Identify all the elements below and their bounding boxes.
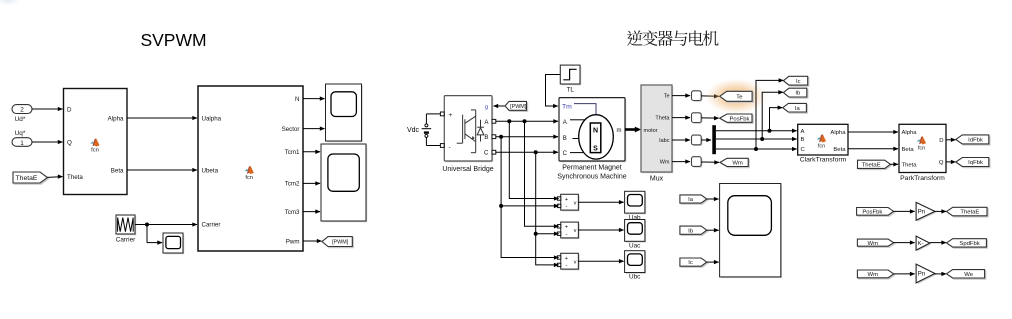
from tag Ib: [681, 227, 708, 235]
wire Wm row: [672, 161, 690, 163]
universal bridge block: [446, 97, 494, 162]
svg-text:C: C: [801, 147, 806, 153]
demux out b to Clark B: [716, 138, 797, 140]
svg-text:g: g: [485, 104, 488, 110]
svg-text:Ubeta: Ubeta: [202, 168, 219, 175]
converter square Te: [693, 92, 703, 102]
svg-text:Wm: Wm: [660, 160, 670, 166]
svg-text:Uac: Uac: [629, 243, 641, 250]
wire Iabc row: [672, 139, 690, 141]
svg-text:+: +: [449, 112, 453, 119]
svg-text:ClarkTransform: ClarkTransform: [800, 156, 847, 163]
svg-text:[PWM]: [PWM]: [510, 104, 527, 110]
svg-text:Beta: Beta: [833, 147, 846, 153]
svg-text:Ib: Ib: [795, 91, 801, 97]
svg-text:B: B: [563, 136, 567, 142]
goto tag Ib: [785, 89, 808, 98]
svg-text:fcn: fcn: [918, 146, 925, 152]
small scope: [164, 234, 184, 254]
branch to goto Ia: [768, 129, 772, 133]
wire bridge A to PMSM A: [496, 120, 558, 122]
svg-text:m: m: [617, 128, 622, 134]
svg-text:ParkTransform: ParkTransform: [900, 175, 945, 182]
svg-text:Te: Te: [664, 94, 670, 100]
converter square Iabc: [693, 136, 703, 146]
svg-text:B: B: [801, 137, 805, 143]
svg-text:fcn: fcn: [818, 144, 825, 150]
svg-text:Wm: Wm: [868, 241, 879, 247]
wire Ud* to D: [32, 108, 63, 110]
svg-text:D: D: [939, 138, 943, 144]
wire B phase to Uab- and Ubc+: [501, 137, 558, 206]
demux out c to Clark C: [716, 148, 797, 150]
gain K row2: [917, 237, 931, 251]
wire TL to Tm: [546, 75, 561, 107]
big scope Iabc: [721, 185, 782, 278]
svg-text:Te: Te: [736, 94, 743, 100]
voltage measurement Ubc: [562, 255, 580, 271]
wire N to scope1: [303, 98, 325, 100]
svg-text:Theta: Theta: [902, 163, 918, 169]
wire C phase to Uac- and Ubc-: [536, 152, 559, 234]
svg-text:Pn: Pn: [918, 209, 926, 216]
from tag Ia: [681, 196, 708, 204]
svg-text:Ubc: Ubc: [629, 274, 641, 281]
goto tag SpdFbk row2: [948, 240, 988, 248]
svg-text:ThetaE: ThetaE: [862, 162, 881, 168]
goto tag IdFbk: [957, 136, 990, 145]
MATLAB function block SVPWM U2: [198, 86, 303, 251]
goto tag PWM: [323, 238, 353, 248]
converter square Wm: [693, 158, 703, 168]
svg-text:Alpha: Alpha: [830, 130, 846, 136]
svg-text:A: A: [801, 129, 805, 135]
svg-text:S: S: [593, 146, 598, 153]
wire bridge C to PMSM C: [496, 151, 558, 153]
wire Vdc to bridge +: [426, 113, 440, 115]
svg-text:D: D: [67, 106, 72, 113]
svg-text:SVPWM: SVPWM: [140, 30, 206, 50]
svg-text:v: v: [574, 228, 577, 234]
svg-text:SpdFbk: SpdFbk: [959, 241, 979, 247]
gain Pn row3: [917, 265, 936, 284]
from tag Wm row3: [859, 271, 895, 279]
demux: [712, 125, 716, 154]
goto tag Wm: [721, 160, 749, 168]
goto tag IqFbk: [957, 159, 990, 168]
svg-text:-: -: [566, 232, 568, 238]
svg-text:Pwm: Pwm: [286, 238, 300, 245]
from tag Ic: [681, 259, 708, 267]
svg-text:A: A: [563, 120, 567, 126]
svg-text:Theta: Theta: [67, 174, 83, 181]
svg-text:v: v: [574, 259, 577, 265]
svg-text:Beta: Beta: [111, 167, 124, 174]
from tag PosFbk row1: [858, 209, 895, 217]
wire A phase to Uac+: [525, 121, 559, 226]
svg-text:Mux: Mux: [650, 176, 664, 183]
wire Vdc to bridge -: [426, 145, 440, 147]
title 逆变器与电机: [627, 30, 719, 46]
wire Pwm to goto PWM: [303, 240, 322, 242]
wire A phase to Uab+: [509, 121, 558, 198]
svg-text:Wm: Wm: [868, 272, 879, 278]
svg-text:Permanent Magnet: Permanent Magnet: [562, 164, 622, 171]
wire Te row: [672, 95, 690, 97]
goto tag ThetaE row1: [948, 209, 989, 218]
branch to goto Ic: [754, 147, 758, 151]
svg-text:Tm: Tm: [562, 104, 572, 111]
svg-text:Alpha: Alpha: [902, 130, 918, 136]
from tag Wm row2: [859, 240, 895, 247]
svg-text:B: B: [484, 134, 488, 141]
svg-text:[PWM]: [PWM]: [332, 239, 349, 245]
svg-text:Ia: Ia: [688, 197, 694, 203]
svg-text:Q: Q: [67, 139, 72, 146]
thick wire m to Mux motor: [625, 128, 639, 131]
goto tag Te highlighted: [721, 93, 753, 103]
wire Uq* to Q: [32, 141, 63, 143]
svg-text:Uq*: Uq*: [15, 130, 26, 137]
svg-text:Alpha: Alpha: [108, 115, 124, 122]
wire Q to IqFbk: [946, 161, 956, 163]
svg-text:Sector: Sector: [282, 126, 300, 133]
carrier source block: [117, 216, 136, 235]
svg-text:v: v: [574, 200, 577, 206]
wire Tcm1 to scope2: [303, 151, 320, 153]
wire Clark beta to Park: [848, 148, 898, 150]
svg-text:TL: TL: [566, 87, 574, 94]
voltage measurement Uac: [562, 223, 580, 239]
ClarkTransform block: [798, 124, 848, 155]
wire Theta row: [672, 117, 690, 119]
converter square Theta: [693, 114, 703, 124]
wire ThetaE to Theta: [48, 176, 63, 179]
svg-text:Ud*: Ud*: [15, 116, 26, 123]
svg-text:Wm: Wm: [732, 161, 743, 167]
svg-text:Ualpha: Ualpha: [202, 116, 222, 123]
bridge ports ABC: [492, 119, 496, 123]
svg-text:fcn: fcn: [245, 175, 253, 181]
svg-text:We: We: [964, 272, 973, 278]
svg-text:Theta: Theta: [655, 116, 670, 122]
svg-text:IqFbk: IqFbk: [968, 160, 983, 166]
svg-text:Ic: Ic: [688, 260, 693, 266]
goto tag We row3: [948, 271, 986, 279]
wire Beta to Ubeta: [127, 169, 197, 171]
svg-text:C: C: [484, 150, 489, 157]
Mux block: [642, 86, 673, 173]
svg-text:IdFbk: IdFbk: [968, 138, 983, 144]
from tag ThetaE right: [859, 161, 892, 169]
svg-text:1: 1: [20, 140, 24, 147]
svg-text:N: N: [593, 128, 598, 135]
MATLAB function block dq->alphabeta U1: [64, 89, 128, 195]
svg-text:Ia: Ia: [795, 106, 801, 112]
PMSM stator ellipse: [579, 115, 614, 159]
step block TL: [562, 66, 582, 85]
svg-text:Carrier: Carrier: [202, 221, 221, 228]
wire D to IdFbk: [946, 139, 956, 141]
svg-text:-: -: [449, 144, 451, 151]
wire Clark alpha to Park: [848, 131, 898, 133]
from tag ThetaE (left): [14, 173, 49, 184]
svg-text:Vdc: Vdc: [407, 127, 420, 134]
svg-text:Ic: Ic: [796, 79, 801, 85]
wire Tcm3 to scope2: [303, 211, 320, 213]
goto tag PosFbk: [721, 115, 753, 123]
branch to goto Ib: [760, 137, 764, 141]
ParkTransform block: [899, 124, 946, 172]
PMSM block: [560, 99, 626, 162]
voltage measurement Uab: [562, 196, 580, 212]
goto tag Ia: [784, 105, 808, 114]
from tag PWM (flipped): [494, 105, 506, 107]
svg-text:Iabc: Iabc: [659, 138, 670, 144]
bridge IGBT icon: [462, 115, 464, 144]
wire bridge B to PMSM B: [496, 136, 558, 138]
svg-text:PosFbk: PosFbk: [862, 209, 882, 215]
svg-text:N: N: [295, 96, 299, 103]
svg-text:Tcm2: Tcm2: [285, 181, 300, 188]
inport Ud* (2): [12, 105, 32, 114]
svg-text:fcn: fcn: [91, 148, 99, 154]
wire Sector to scope1: [303, 128, 325, 130]
svg-text:K-: K-: [918, 241, 924, 247]
demux out a to Clark A: [716, 130, 797, 132]
goto tag Ic: [785, 78, 809, 87]
svg-text:2: 2: [20, 107, 24, 114]
svg-text:Carrier: Carrier: [116, 237, 136, 244]
svg-text:Tcm3: Tcm3: [285, 209, 300, 216]
scope Tcm: [322, 145, 367, 222]
svg-text:PosFbk: PosFbk: [730, 116, 750, 122]
svg-text:-: -: [566, 204, 568, 210]
svg-text:ThetaE: ThetaE: [960, 210, 979, 216]
svg-text:ThetaE: ThetaE: [16, 175, 38, 182]
svg-text:C: C: [563, 151, 568, 157]
gain Pn row1: [917, 204, 936, 222]
svg-text:Universal Bridge: Universal Bridge: [442, 166, 493, 173]
wire Alpha to Ualpha: [127, 117, 197, 119]
wire carrier to block and scope branch: [135, 224, 197, 226]
PMSM magnet NS: [590, 123, 601, 153]
svg-text:Synchronous Machine: Synchronous Machine: [557, 173, 626, 180]
svg-text:Tcm1: Tcm1: [285, 149, 300, 156]
svg-text:motor: motor: [644, 128, 658, 134]
wire Tcm2 to scope2: [303, 182, 320, 184]
svg-text:Beta: Beta: [902, 147, 915, 153]
scope N/Sector: [327, 85, 363, 142]
svg-text:-: -: [566, 263, 568, 269]
svg-text:Pn: Pn: [918, 271, 926, 278]
svg-text:Q: Q: [939, 160, 944, 166]
te glow highlight: [705, 78, 767, 114]
svg-text:Ib: Ib: [688, 228, 694, 234]
